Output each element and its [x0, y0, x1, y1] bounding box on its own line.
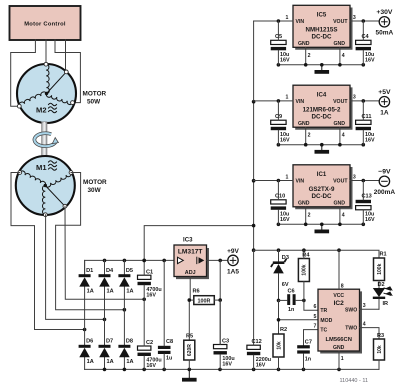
- wire IC4 VOUT pin 3: [350, 100, 379, 102]
- svg-text:1: 1: [341, 356, 344, 362]
- svg-text:GND: GND: [298, 41, 310, 47]
- node ground rail junctions: [103, 368, 341, 372]
- svg-text:C2: C2: [146, 340, 153, 346]
- svg-text:C8: C8: [166, 339, 173, 345]
- svg-text:16V: 16V: [280, 217, 290, 223]
- wire M1 bottom terminal to D7 phase: [46, 215, 105, 320]
- resistor R6: [193, 289, 215, 305]
- wire IC4 GND pin 4: [339, 127, 341, 145]
- wire R5 to ground rail: [188, 360, 190, 369]
- wire IC4 GND pin 2: [305, 127, 307, 145]
- svg-text:6V: 6V: [282, 282, 289, 288]
- wire D6 anode column: [84, 357, 86, 369]
- svg-text:LM566CN: LM566CN: [325, 337, 351, 343]
- wire control pin1 to M2 left terminal: [11, 40, 36, 106]
- svg-text:16V: 16V: [146, 363, 156, 369]
- svg-text:C1: C1: [146, 270, 153, 276]
- node +30V output terminal: [376, 9, 394, 37]
- svg-text:IC1: IC1: [317, 171, 327, 178]
- diode D8: [118, 339, 133, 365]
- wire IC1 ground bus: [278, 223, 363, 225]
- node +9V output terminal: [227, 248, 240, 276]
- svg-text:GND: GND: [298, 121, 310, 127]
- svg-text:1A: 1A: [126, 289, 133, 295]
- wire ground rail: [85, 368, 379, 370]
- svg-text:C12: C12: [252, 339, 262, 345]
- svg-text:D4: D4: [106, 268, 114, 274]
- diode D1: [79, 268, 94, 295]
- svg-text:10k: 10k: [276, 341, 282, 350]
- wire IC2 TWO pin 4 to R3: [360, 328, 380, 339]
- wire R6 right to output column: [214, 299, 220, 301]
- svg-text:R1: R1: [380, 251, 387, 257]
- svg-text:VIN: VIN: [296, 99, 305, 105]
- svg-text:1n: 1n: [288, 307, 294, 313]
- wire D4 anode column: [104, 260, 106, 274]
- svg-text:2: 2: [308, 53, 311, 59]
- svg-text:100R: 100R: [198, 299, 211, 305]
- svg-text:4: 4: [342, 133, 345, 139]
- capacitor C3: [214, 300, 235, 369]
- wire IC5 VIN pin 1: [254, 20, 293, 22]
- resistor R1: [374, 251, 387, 280]
- wire control pin2 to M2 top terminal: [45, 40, 47, 64]
- diode D6: [79, 339, 94, 365]
- wire DC-DC converter input bus: [253, 21, 255, 250]
- svg-text:VIN: VIN: [296, 178, 305, 184]
- svg-text:3: 3: [353, 95, 356, 101]
- ground symbol for IC1: [315, 224, 330, 233]
- diode D7: [99, 339, 114, 365]
- svg-text:1: 1: [286, 174, 289, 180]
- svg-text:1A: 1A: [107, 289, 114, 295]
- svg-text:GND: GND: [333, 41, 345, 47]
- svg-text:+5V: +5V: [378, 89, 391, 96]
- capacitor C11: [356, 101, 375, 145]
- op-amp IC5 NMH1215S DC-DC converter: [293, 5, 351, 48]
- svg-text:8: 8: [341, 283, 344, 289]
- svg-text:C11: C11: [362, 114, 372, 120]
- diode D5: [118, 268, 133, 295]
- ground symbol for IC5: [315, 65, 330, 74]
- svg-text:1A5: 1A5: [227, 268, 239, 275]
- svg-text:620R: 620R: [187, 344, 193, 356]
- svg-text:C3: C3: [222, 339, 229, 345]
- wire IC5 ground bus: [278, 64, 363, 66]
- svg-text:+9V: +9V: [227, 248, 239, 255]
- svg-text:3: 3: [353, 15, 356, 21]
- svg-text:50W: 50W: [87, 99, 101, 106]
- svg-text:4: 4: [363, 322, 366, 328]
- svg-text:100k: 100k: [377, 263, 383, 274]
- svg-text:−9V: −9V: [378, 169, 391, 176]
- svg-text:16V: 16V: [256, 362, 266, 368]
- svg-text:M2: M2: [36, 106, 47, 115]
- wire IC5 GND pin 4: [339, 47, 341, 65]
- capacitor C9: [271, 101, 290, 145]
- svg-text:10k: 10k: [377, 345, 383, 354]
- svg-text:GS2TX-9: GS2TX-9: [309, 186, 335, 193]
- svg-text:NMH1215S: NMH1215S: [306, 27, 338, 34]
- wire D5 anode column: [123, 260, 125, 274]
- svg-text:7: 7: [314, 324, 317, 330]
- svg-text:MOTOR: MOTOR: [83, 179, 107, 186]
- svg-text:GND: GND: [333, 121, 345, 127]
- wire IC1 VIN pin 1: [254, 180, 293, 182]
- svg-text:LM317T: LM317T: [178, 249, 203, 256]
- svg-text:C7: C7: [305, 339, 312, 345]
- wire IC3 output to +9V terminal: [207, 259, 228, 261]
- svg-text:IC4: IC4: [317, 91, 327, 98]
- capacitor C6: [279, 288, 304, 312]
- rotation arrow: [34, 133, 58, 146]
- svg-text:D3: D3: [282, 255, 289, 261]
- wire R2 to ground rail: [278, 357, 280, 369]
- svg-text:4: 4: [342, 212, 345, 218]
- wire control pin3 to M2 right terminal: [55, 40, 80, 103]
- capacitor C5: [271, 21, 290, 65]
- svg-text:R6: R6: [193, 289, 200, 295]
- svg-text:16V: 16V: [365, 137, 375, 143]
- ground symbol below R5: [182, 369, 197, 381]
- wire M1 star terminal to capacitor midpoint: [65, 206, 144, 299]
- wire IC5 VOUT pin 3: [350, 20, 379, 22]
- wire IC2 SWO pin 3 to D2: [360, 308, 380, 310]
- svg-text:VCC: VCC: [333, 293, 344, 299]
- svg-text:1A: 1A: [87, 359, 94, 365]
- resistor R3: [374, 333, 385, 360]
- svg-text:C6: C6: [288, 288, 295, 294]
- svg-text:C5: C5: [275, 34, 282, 40]
- wire D8 anode column: [123, 357, 125, 369]
- svg-text:IR: IR: [383, 301, 389, 307]
- motor M2: [17, 62, 76, 123]
- capacitor C8: [158, 260, 173, 369]
- svg-text:VOUT: VOUT: [333, 19, 348, 25]
- wire D7 anode column: [104, 357, 106, 369]
- svg-text:R5: R5: [186, 333, 193, 339]
- svg-text:2: 2: [308, 133, 311, 139]
- svg-text:VOUT: VOUT: [333, 99, 348, 105]
- svg-text:R3: R3: [377, 333, 384, 339]
- wire M1 NW terminal to D6 phase: [11, 173, 85, 330]
- wire IC1 GND pin 4: [339, 207, 341, 225]
- svg-text:VIN: VIN: [296, 19, 305, 25]
- svg-text:GND: GND: [333, 345, 345, 351]
- svg-text:16V: 16V: [222, 362, 232, 368]
- svg-text:1A: 1A: [87, 289, 94, 295]
- svg-text:DC-DC: DC-DC: [312, 193, 332, 200]
- wire IC1 VOUT pin 3: [350, 180, 379, 182]
- svg-text:1n: 1n: [305, 356, 311, 362]
- svg-text:1u: 1u: [166, 356, 172, 362]
- svg-text:3: 3: [363, 303, 366, 309]
- svg-text:ADJ: ADJ: [185, 270, 196, 276]
- wire IC2 GND pin 1: [338, 351, 340, 369]
- wire D1 anode column: [84, 260, 86, 274]
- svg-text:C10: C10: [275, 194, 285, 200]
- svg-text:2: 2: [308, 212, 311, 218]
- svg-text:MOD: MOD: [320, 318, 332, 324]
- svg-text:5: 5: [314, 314, 317, 320]
- svg-text:IC5: IC5: [317, 12, 327, 19]
- svg-text:DC-DC: DC-DC: [312, 114, 332, 121]
- svg-text:DC-DC: DC-DC: [312, 34, 332, 41]
- wire raw DC feed to converter bus: [144, 226, 253, 261]
- svg-text:16V: 16V: [365, 217, 375, 223]
- resistor R5: [184, 333, 195, 360]
- svg-text:16V: 16V: [280, 58, 290, 64]
- svg-text:C4: C4: [362, 34, 370, 40]
- wire control pin4 to M2 star terminal: [65, 40, 67, 72]
- svg-text:16V: 16V: [280, 137, 290, 143]
- svg-text:GND: GND: [333, 201, 345, 207]
- capacitor C7: [297, 339, 312, 369]
- wire R4 bottom to C6/TR: [304, 282, 318, 311]
- wire M1 NE terminal to D8 phase: [56, 173, 125, 310]
- capacitor C13: [356, 181, 375, 225]
- svg-text:1: 1: [286, 15, 289, 21]
- wire IC4 ground bus: [278, 144, 363, 146]
- node rail junctions: [103, 259, 166, 263]
- svg-text:M1: M1: [36, 163, 47, 172]
- svg-text:MOTOR: MOTOR: [83, 91, 107, 98]
- op-amp IC4 121MR6-05-2 DC-DC converter: [293, 85, 351, 128]
- wire rectifier positive rail: [85, 260, 174, 274]
- capacitor C12: [247, 250, 271, 369]
- motor shaft: [42, 122, 47, 158]
- wire MOD pin 5: [278, 300, 280, 334]
- node −9V output terminal: [374, 169, 396, 197]
- svg-text:C9: C9: [275, 114, 282, 120]
- svg-text:TC: TC: [320, 328, 327, 334]
- wire +V supply line to oscillator: [254, 250, 379, 258]
- svg-text:IC3: IC3: [183, 237, 193, 244]
- svg-text:D5: D5: [126, 268, 133, 274]
- capacitor C10: [271, 181, 290, 225]
- svg-text:TR: TR: [320, 308, 327, 314]
- svg-text:D6: D6: [86, 339, 93, 345]
- wire IC1 GND pin 2: [305, 207, 307, 225]
- svg-text:GND: GND: [298, 201, 310, 207]
- svg-text:110440 - 11: 110440 - 11: [340, 378, 369, 384]
- wire IC4 VIN pin 1: [254, 100, 293, 102]
- motor M1: [16, 156, 75, 217]
- svg-text:+30V: +30V: [376, 9, 393, 16]
- svg-text:VOUT: VOUT: [333, 178, 348, 184]
- op-amp IC3 LM317T regulator: [174, 237, 208, 278]
- svg-text:1A: 1A: [380, 110, 389, 117]
- ground symbol for IC4: [315, 145, 330, 154]
- wire R3 to ground rail: [378, 360, 380, 369]
- svg-text:1: 1: [286, 95, 289, 101]
- svg-text:16V: 16V: [365, 58, 375, 64]
- wire IC5 GND pin 2: [305, 47, 307, 65]
- node +5V output terminal: [378, 89, 391, 117]
- op-amp IC2 LM566CN oscillator: [318, 289, 361, 352]
- capacitor C2: [138, 299, 162, 369]
- diode D2 infrared LED: [373, 281, 393, 310]
- svg-text:D8: D8: [126, 339, 133, 345]
- capacitor C1: [138, 260, 162, 299]
- wire TC pin 7: [304, 330, 319, 346]
- svg-text:1A: 1A: [126, 359, 133, 365]
- svg-text:3: 3: [353, 174, 356, 180]
- svg-text:R2: R2: [280, 327, 287, 333]
- svg-text:Motor Control: Motor Control: [24, 21, 66, 27]
- svg-text:4: 4: [342, 53, 345, 59]
- svg-text:100k: 100k: [302, 264, 308, 275]
- svg-text:SWO: SWO: [345, 308, 357, 314]
- svg-text:D7: D7: [106, 339, 113, 345]
- svg-text:TWO: TWO: [345, 326, 357, 332]
- op-amp IC1 GS2TX-9 DC-DC converter: [293, 165, 351, 208]
- svg-text:D2: D2: [378, 282, 385, 288]
- svg-text:D1: D1: [86, 268, 93, 274]
- capacitor C4: [356, 21, 375, 65]
- wire IC3 ADJ to R6/R5: [188, 277, 191, 341]
- node phase junctions: [83, 298, 146, 332]
- diode D4: [99, 268, 115, 295]
- wire R4 top to supply: [303, 250, 305, 258]
- svg-text:200mA: 200mA: [374, 189, 396, 196]
- svg-text:50mA: 50mA: [376, 30, 394, 37]
- svg-text:C13: C13: [362, 194, 372, 200]
- svg-text:121MR6-05-2: 121MR6-05-2: [303, 106, 341, 113]
- svg-text:30W: 30W: [88, 187, 102, 194]
- svg-text:IC2: IC2: [334, 300, 345, 307]
- svg-text:6: 6: [314, 304, 317, 310]
- resistor R2: [273, 327, 287, 357]
- resistor R4: [298, 253, 310, 282]
- diode D3 zener 6V: [271, 250, 289, 300]
- svg-text:16V: 16V: [146, 292, 156, 298]
- Motor Control box: [10, 6, 81, 40]
- wire IC2 VCC pin 8: [338, 250, 340, 289]
- svg-text:1A: 1A: [107, 359, 114, 365]
